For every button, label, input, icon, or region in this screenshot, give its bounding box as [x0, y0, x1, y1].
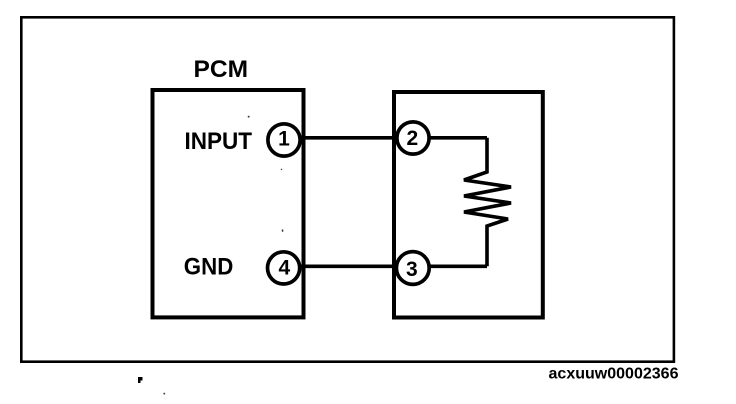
svg-text:4: 4	[278, 256, 290, 279]
svg-text:PCM: PCM	[194, 56, 249, 83]
svg-text:INPUT: INPUT	[185, 128, 253, 155]
svg-text:GND: GND	[184, 254, 234, 281]
svg-text:1: 1	[278, 128, 290, 151]
svg-text:3: 3	[406, 258, 418, 281]
svg-text:acxuuw00002366: acxuuw00002366	[549, 366, 679, 383]
svg-text:2: 2	[406, 127, 418, 150]
